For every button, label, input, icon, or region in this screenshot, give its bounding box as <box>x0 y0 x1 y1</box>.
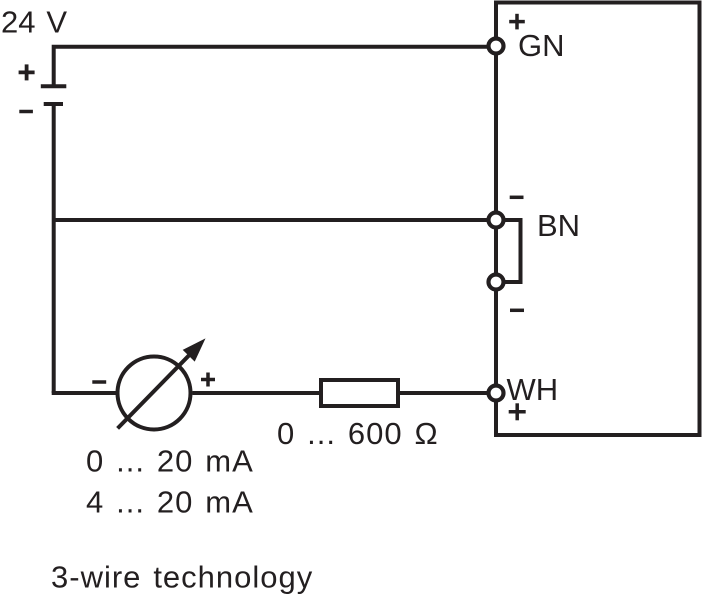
meter M1 <box>118 357 191 430</box>
wire from resistor to WH <box>398 391 487 395</box>
svg-text:GN: GN <box>518 28 565 63</box>
battery plus label <box>19 64 35 80</box>
wire from meter to resistor <box>193 391 322 395</box>
svg-text:0 ... 600 Ω: 0 ... 600 Ω <box>277 416 439 451</box>
svg-text:WH: WH <box>507 372 559 407</box>
BN terminal loop <box>496 220 521 282</box>
device box left edge <box>494 2 498 435</box>
svg-text:BN: BN <box>537 208 580 243</box>
meter needle arrow <box>118 338 206 428</box>
svg-text:24 V: 24 V <box>1 5 67 40</box>
WH plus label <box>509 403 526 420</box>
battery minus label <box>19 110 33 114</box>
terminal BN upper <box>489 213 504 228</box>
terminal BN lower <box>489 275 504 290</box>
resistor R1 0...600 ohm <box>321 380 398 406</box>
BN minus label lower <box>510 309 524 313</box>
svg-text:4 ... 20 mA: 4 ... 20 mA <box>86 485 254 520</box>
wire left vertical from battery to bottom row <box>52 104 56 393</box>
GN plus label <box>509 14 525 30</box>
BN minus label upper <box>510 196 524 200</box>
svg-text:0 ... 20 mA: 0 ... 20 mA <box>86 444 254 479</box>
terminal WH <box>489 386 504 401</box>
device box outline <box>496 3 700 436</box>
wire bottom from left rail to meter <box>52 391 116 395</box>
wire top from battery to GN <box>54 47 487 87</box>
meter plus label <box>201 373 215 387</box>
battery B1 <box>41 86 67 104</box>
wire middle from left rail to BN <box>54 218 487 222</box>
svg-text:3-wire technology: 3-wire technology <box>51 560 313 595</box>
terminal GN <box>489 39 504 54</box>
meter minus label <box>92 380 106 384</box>
